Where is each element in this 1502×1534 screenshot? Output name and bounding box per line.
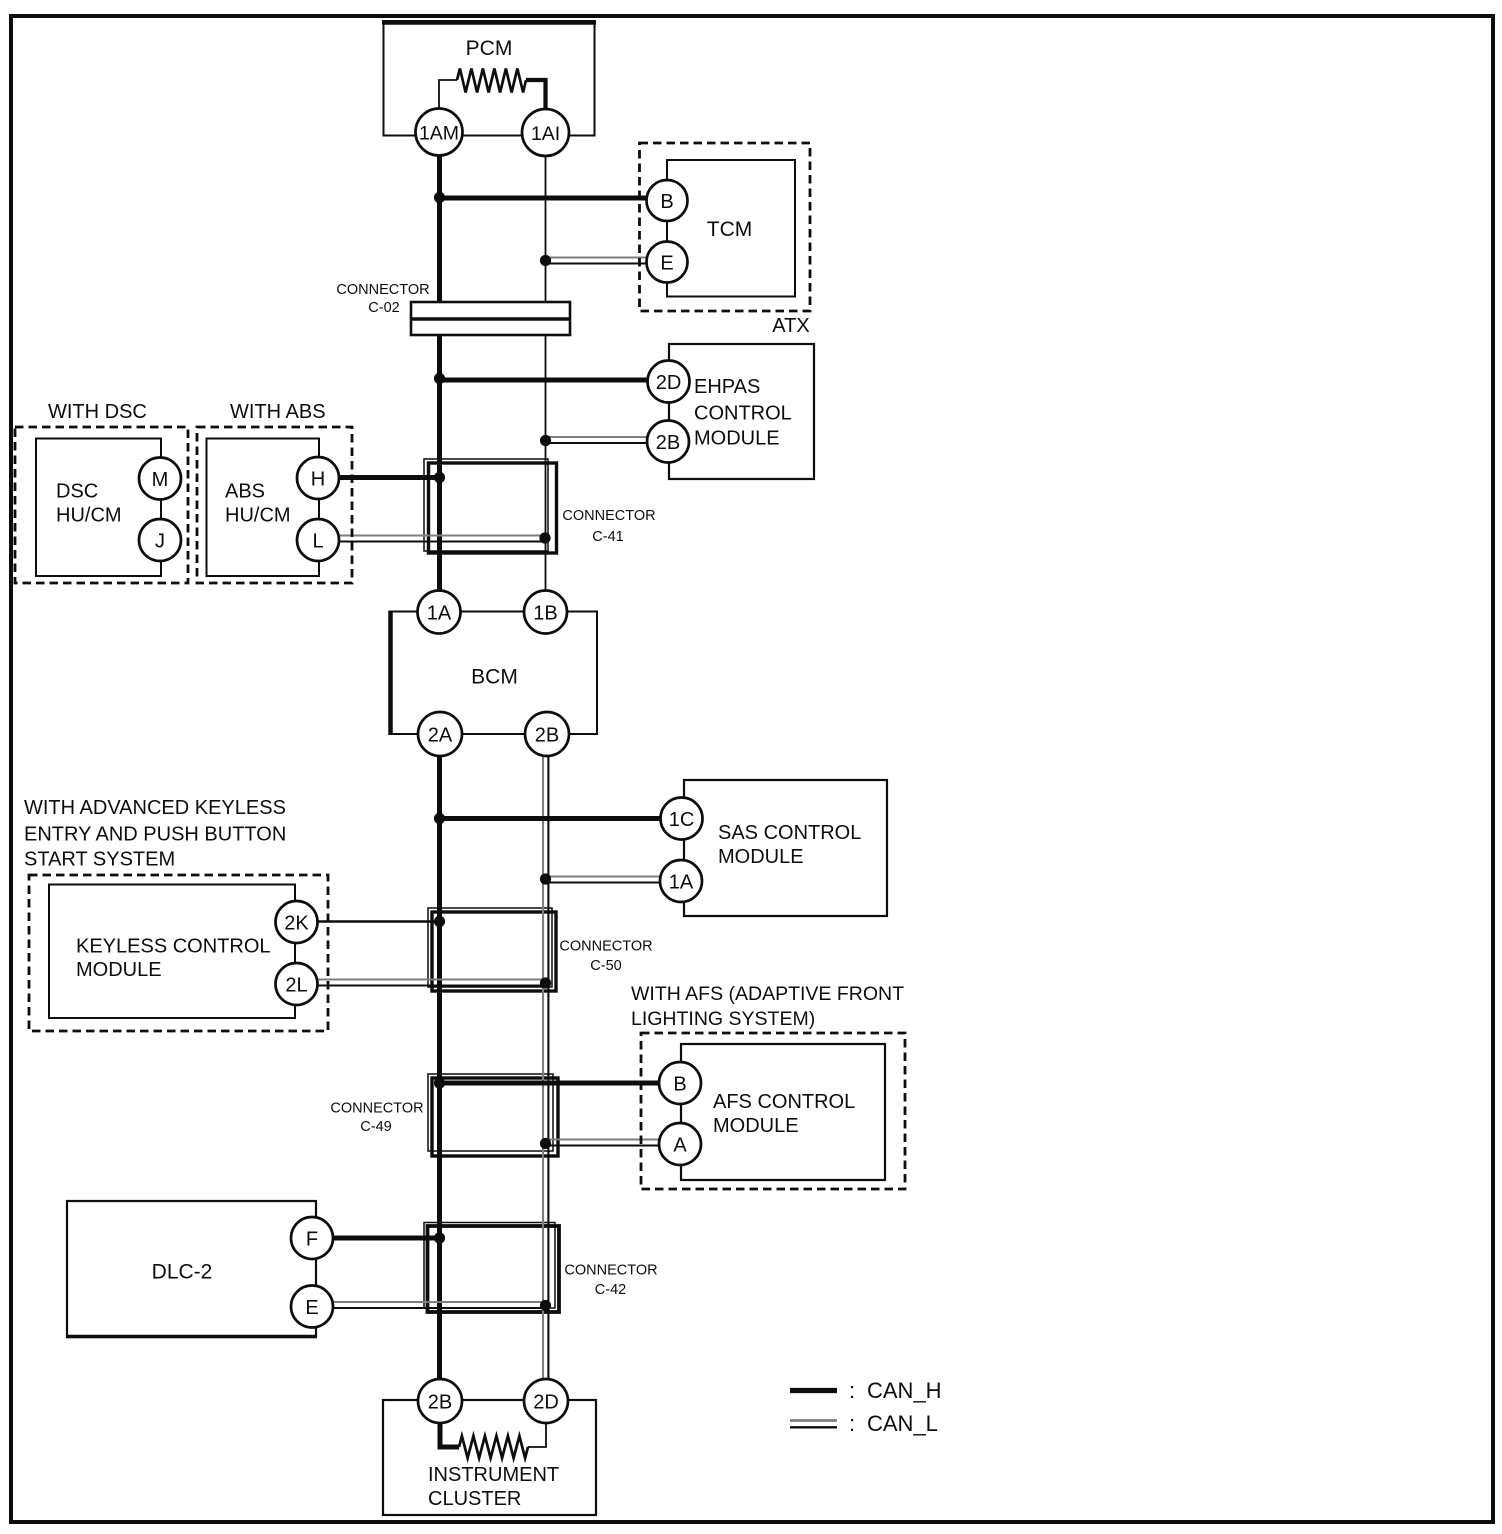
module EHPAS CONTROL MODULE box bbox=[669, 344, 814, 479]
wire CAN_L bus lower vertical double line (BCM 2B to cluster 2D) bbox=[543, 752, 548, 1384]
svg-text:KEYLESS CONTROL: KEYLESS CONTROL bbox=[76, 936, 271, 958]
junction CAN_L / SAS 1A bbox=[540, 873, 551, 884]
svg-text:BCM: BCM bbox=[471, 666, 518, 689]
svg-text:INSTRUMENT: INSTRUMENT bbox=[428, 1464, 559, 1486]
BRANCHWIRES bbox=[316, 198, 662, 1308]
svg-text:MODULE: MODULE bbox=[713, 1115, 799, 1137]
junction CAN_H / TCM B bbox=[434, 192, 445, 203]
legend CAN_H label bbox=[849, 1378, 942, 1403]
svg-text::: : bbox=[849, 1378, 855, 1403]
svg-text:2B: 2B bbox=[535, 725, 559, 747]
junction CAN_H / EHPAS 2D bbox=[434, 373, 445, 384]
pin E of DLC-2 bbox=[291, 1286, 333, 1328]
svg-text:CONTROL: CONTROL bbox=[694, 403, 792, 425]
wire CAN_H branch to SAS pin 1C bbox=[437, 816, 662, 821]
svg-text:E: E bbox=[305, 1297, 318, 1319]
wire ABS pin L to CAN_L bus (double) bbox=[337, 536, 548, 542]
connector C-02 bars (drawn over buses) bbox=[411, 302, 570, 335]
svg-text:1A: 1A bbox=[427, 603, 452, 625]
terminating resistor in PCM bbox=[439, 69, 546, 111]
connector C-50 label bbox=[559, 939, 652, 975]
junction CAN_H / DLC-2 F bbox=[434, 1232, 445, 1243]
svg-text:CAN_L: CAN_L bbox=[867, 1411, 938, 1436]
label WITH ADVANCED KEYLESS ENTRY AND PUSH BUTTON START SYSTEM bbox=[24, 797, 286, 871]
svg-text:C-02: C-02 bbox=[368, 300, 399, 316]
svg-text:PCM: PCM bbox=[466, 37, 513, 60]
DOTS bbox=[434, 192, 551, 1311]
svg-text:TCM: TCM bbox=[707, 218, 753, 241]
connector C-41 outline bbox=[424, 459, 557, 553]
pin 2B of EHPAS bbox=[647, 421, 689, 463]
svg-text:1AI: 1AI bbox=[531, 123, 560, 145]
svg-text:WITH ADVANCED KEYLESS: WITH ADVANCED KEYLESS bbox=[24, 797, 286, 819]
module KEYLESS CONTROL MODULE box bbox=[49, 885, 295, 1019]
pin A of AFS bbox=[659, 1123, 701, 1165]
ABS dashed enclosure bbox=[197, 427, 352, 583]
pin B of AFS bbox=[659, 1062, 701, 1104]
module AFS CONTROL MODULE box bbox=[681, 1044, 885, 1180]
svg-text:1AM: 1AM bbox=[419, 123, 459, 145]
pin 1C of SAS bbox=[661, 798, 703, 840]
junction CAN_L / DLC-2 E bbox=[540, 1300, 551, 1311]
junction CAN_L / EHPAS 2B bbox=[540, 435, 551, 446]
terminating resistor in cluster bbox=[440, 1423, 546, 1458]
svg-text:CAN_H: CAN_H bbox=[867, 1378, 942, 1403]
connector C-49 label bbox=[330, 1101, 423, 1136]
connector C-49 outline bbox=[428, 1074, 558, 1156]
DSC dashed enclosure bbox=[15, 427, 188, 583]
svg-text:MODULE: MODULE bbox=[718, 846, 804, 868]
pin F of DLC-2 bbox=[291, 1217, 333, 1259]
wire CAN_L branch to EHPAS pin 2B (double) bbox=[544, 437, 650, 443]
svg-text:MODULE: MODULE bbox=[76, 959, 162, 981]
junction CAN_L / TCM E bbox=[540, 255, 551, 266]
pin E of TCM bbox=[647, 242, 688, 283]
svg-text:M: M bbox=[152, 469, 169, 491]
pin 2D of cluster bbox=[524, 1379, 568, 1423]
wire CAN_L branch to SAS pin 1A (double) bbox=[544, 877, 662, 883]
svg-text:A: A bbox=[673, 1135, 687, 1157]
svg-text:2B: 2B bbox=[656, 432, 680, 454]
svg-text:CONNECTOR: CONNECTOR bbox=[330, 1101, 423, 1117]
svg-text:1B: 1B bbox=[533, 603, 557, 625]
svg-text:ABS: ABS bbox=[225, 481, 265, 503]
wire KEYLESS pin 2L to CAN_L bus (double) bbox=[316, 980, 548, 986]
wire DLC-2 pin E to CAN_L bus (double) bbox=[331, 1302, 548, 1308]
svg-text::: : bbox=[849, 1411, 855, 1436]
svg-text:WITH ABS: WITH ABS bbox=[230, 401, 326, 423]
module ABS HU/CM box bbox=[207, 439, 320, 577]
svg-text:LIGHTING SYSTEM): LIGHTING SYSTEM) bbox=[631, 1008, 815, 1030]
pin L of ABS bbox=[297, 519, 339, 561]
junction CAN_H / AFS B bbox=[434, 1077, 445, 1088]
wire CAN_H bus upper vertical (PCM 1AM to BCM 1A) bbox=[437, 150, 442, 594]
legend CAN_H sample line bbox=[790, 1388, 837, 1393]
junction CAN_L / ABS L bbox=[539, 532, 550, 543]
junction CAN_L / AFS A bbox=[540, 1138, 551, 1149]
svg-text:C-49: C-49 bbox=[360, 1119, 391, 1135]
svg-text:1C: 1C bbox=[669, 809, 695, 831]
pin 1B of BCM bbox=[524, 591, 567, 634]
pin J of DSC bbox=[139, 519, 181, 561]
svg-text:ENTRY AND PUSH BUTTON: ENTRY AND PUSH BUTTON bbox=[24, 824, 286, 846]
pin 2K of KEYLESS bbox=[276, 901, 318, 943]
BUSES bbox=[440, 150, 549, 1384]
module BCM box bbox=[390, 611, 597, 736]
svg-text:CONNECTOR: CONNECTOR bbox=[559, 939, 652, 955]
module TCM box bbox=[667, 160, 795, 297]
svg-text:F: F bbox=[306, 1229, 318, 1251]
svg-text:DLC-2: DLC-2 bbox=[152, 1261, 213, 1284]
MODULES bbox=[15, 21, 905, 1515]
wire CAN_L bus upper vertical (PCM 1AI to BCM 1B) bbox=[545, 152, 547, 594]
wire CAN_L branch to TCM pin E (double) bbox=[542, 258, 650, 264]
svg-text:CONNECTOR: CONNECTOR bbox=[336, 282, 429, 298]
svg-text:AFS CONTROL: AFS CONTROL bbox=[713, 1091, 855, 1113]
KEYLESS dashed enclosure bbox=[29, 875, 328, 1031]
svg-text:B: B bbox=[660, 191, 673, 213]
svg-text:C-41: C-41 bbox=[592, 529, 623, 545]
legend CAN_L label bbox=[849, 1411, 938, 1436]
wire KEYLESS pin 2K to CAN_H bus bbox=[316, 920, 442, 923]
svg-text:2D: 2D bbox=[533, 1392, 559, 1414]
pin 1A of BCM bbox=[418, 591, 461, 634]
svg-text:C-42: C-42 bbox=[595, 1282, 626, 1298]
svg-text:C-50: C-50 bbox=[590, 958, 621, 974]
pin 1AI of PCM bbox=[522, 109, 569, 156]
svg-text:HU/CM: HU/CM bbox=[225, 505, 291, 527]
svg-text:H: H bbox=[311, 469, 325, 491]
svg-text:EHPAS: EHPAS bbox=[694, 376, 760, 398]
pin 2B of BCM bbox=[525, 712, 569, 756]
pin 1A of SAS bbox=[660, 860, 702, 902]
svg-text:CLUSTER: CLUSTER bbox=[428, 1488, 521, 1510]
module DLC-2 box bbox=[66, 1201, 317, 1337]
TCM dashed enclosure (ATX option) bbox=[640, 143, 811, 311]
pin 2B of cluster bbox=[418, 1379, 462, 1423]
label WITH AFS (ADAPTIVE FRONT LIGHTING SYSTEM) bbox=[631, 983, 904, 1030]
connector C-02 label bbox=[336, 282, 429, 316]
LEGEND bbox=[790, 1378, 942, 1436]
module INSTRUMENT CLUSTER box bbox=[383, 1400, 596, 1515]
svg-text:WITH DSC: WITH DSC bbox=[48, 401, 147, 423]
svg-text:2B: 2B bbox=[428, 1392, 452, 1414]
connector C-42 outline bbox=[424, 1223, 559, 1313]
connector C-42 label bbox=[564, 1263, 657, 1299]
svg-text:CONNECTOR: CONNECTOR bbox=[564, 1263, 657, 1279]
module PCM box bbox=[382, 21, 596, 136]
svg-text:START SYSTEM: START SYSTEM bbox=[24, 849, 175, 871]
svg-text:MODULE: MODULE bbox=[694, 428, 780, 450]
pin M of DSC bbox=[139, 458, 181, 500]
wire CAN_H branch to AFS pin B bbox=[437, 1081, 661, 1086]
svg-text:1A: 1A bbox=[669, 872, 694, 894]
legend CAN_L sample double line bbox=[790, 1421, 837, 1428]
junction CAN_L / KEYLESS 2L bbox=[540, 977, 551, 988]
pin B of TCM bbox=[647, 180, 688, 221]
junction CAN_H / ABS H bbox=[434, 472, 445, 483]
wire ABS pin H to CAN_H bus bbox=[337, 475, 442, 480]
svg-text:2A: 2A bbox=[428, 725, 453, 747]
svg-text:2K: 2K bbox=[284, 913, 309, 935]
module DSC HU/CM box bbox=[36, 439, 161, 577]
junction CAN_H / SAS 1C bbox=[434, 813, 445, 824]
svg-text:B: B bbox=[673, 1074, 686, 1096]
svg-text:WITH AFS (ADAPTIVE FRONT: WITH AFS (ADAPTIVE FRONT bbox=[631, 983, 904, 1005]
wire CAN_H bus lower vertical (BCM 2A to cluster 2B) bbox=[437, 752, 442, 1384]
svg-text:2D: 2D bbox=[656, 372, 682, 394]
svg-text:L: L bbox=[312, 531, 323, 553]
wire DLC-2 pin F to CAN_H bus bbox=[331, 1236, 442, 1241]
pin 1AM of PCM bbox=[416, 109, 463, 156]
pin 2D of EHPAS bbox=[648, 361, 690, 403]
svg-text:2L: 2L bbox=[285, 975, 307, 997]
module SAS CONTROL MODULE box bbox=[684, 780, 887, 916]
svg-text:E: E bbox=[660, 253, 673, 275]
connector C-50 outline bbox=[428, 908, 556, 991]
junction CAN_H / KEYLESS 2K bbox=[434, 916, 445, 927]
connector C-41 label bbox=[562, 508, 655, 545]
pin 2A of BCM bbox=[418, 712, 462, 756]
svg-text:HU/CM: HU/CM bbox=[56, 505, 122, 527]
wire CAN_H branch to EHPAS pin 2D bbox=[437, 378, 650, 383]
svg-text:ATX: ATX bbox=[772, 315, 809, 337]
pin 2L of KEYLESS bbox=[276, 963, 318, 1005]
svg-text:CONNECTOR: CONNECTOR bbox=[562, 508, 655, 524]
AFS dashed enclosure bbox=[641, 1033, 905, 1189]
wire CAN_L branch to AFS pin A (double) bbox=[544, 1140, 661, 1146]
pin H of ABS bbox=[297, 457, 339, 499]
svg-text:DSC: DSC bbox=[56, 481, 98, 503]
svg-text:J: J bbox=[155, 531, 165, 553]
svg-text:SAS CONTROL: SAS CONTROL bbox=[718, 822, 861, 844]
wire CAN_H branch to TCM pin B bbox=[437, 196, 650, 201]
CONNECTORS (under bus lines) bbox=[330, 459, 657, 1312]
